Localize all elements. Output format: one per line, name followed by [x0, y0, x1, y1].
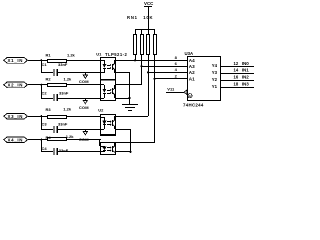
- wire U2 ch2 emitter: [116, 151, 131, 152]
- wire C2 to optocoupler cathode: [58, 98, 101, 99]
- svg-text:A1: A1: [189, 77, 195, 82]
- svg-text:R2: R2: [46, 76, 52, 81]
- optocoupler U2 channel 2 box: [100, 142, 116, 155]
- svg-text:Y1: Y1: [212, 84, 218, 89]
- svg-text:IN3: IN3: [242, 81, 250, 86]
- port X2_IN: [4, 82, 28, 88]
- wire C3 to optocoupler cathode: [58, 129, 101, 130]
- pin 6 label A3: [175, 61, 196, 69]
- svg-text:1.2k: 1.2k: [66, 134, 75, 139]
- power symbol VCC: [144, 1, 154, 29]
- svg-text:Y4: Y4: [212, 63, 218, 68]
- svg-text:16: 16: [234, 75, 239, 80]
- optocoupler U1 label TLP521-2: [96, 52, 127, 57]
- wire X4_IN to R4: [28, 139, 47, 140]
- enable net V11 to pin 1/19 (G): [166, 86, 192, 98]
- wire U1 ch2 collector to RN1-2: [116, 84, 142, 85]
- resistor R1 1.2k: [46, 53, 76, 63]
- port X3_IN: [4, 113, 28, 119]
- resistor RN1 element 3: [146, 29, 150, 116]
- svg-text:IN1: IN1: [242, 68, 250, 73]
- optocoupler U1 channel 1 (LED + phototransistor): [101, 60, 116, 73]
- svg-text:18: 18: [234, 81, 239, 86]
- ground GND symbol: [122, 104, 138, 111]
- svg-text:1.2k: 1.2k: [63, 107, 72, 112]
- svg-text:RN1: RN1: [127, 15, 138, 20]
- svg-text:33nF: 33nF: [58, 62, 68, 67]
- resistor R3 1.2k: [46, 107, 72, 120]
- power symbol COM (row2): [79, 98, 89, 110]
- svg-text:U1: U1: [96, 52, 102, 57]
- wire RN1-2 to IC pin 6 (node row2): [140, 65, 187, 67]
- wire VCC bus: [135, 29, 155, 30]
- wire C1 to optocoupler cathode: [58, 72, 101, 73]
- optocoupler U2 channel 1 box: [100, 114, 116, 136]
- svg-text:C4: C4: [42, 146, 48, 151]
- wire R4 to optocoupler: [67, 139, 101, 140]
- resistor R4 1.2k: [46, 134, 75, 141]
- svg-text:C1: C1: [42, 62, 48, 67]
- svg-text:X1_IN: X1_IN: [7, 58, 23, 63]
- capacitor C4 33nF: [41, 146, 69, 155]
- wire U2 ch1 emitter down: [116, 129, 132, 153]
- pin 2 label A1: [175, 73, 196, 81]
- svg-text:2: 2: [175, 73, 178, 78]
- svg-text:C2: C2: [42, 90, 48, 95]
- svg-text:A4: A4: [189, 58, 195, 63]
- svg-text:IN2: IN2: [242, 75, 250, 80]
- optocoupler U2 label: [98, 108, 104, 113]
- optocoupler U1 outer box: [100, 57, 116, 101]
- svg-text:X3_IN: X3_IN: [7, 114, 23, 119]
- wire R1 to optocoupler: [67, 60, 101, 61]
- svg-text:33nF: 33nF: [58, 122, 68, 127]
- svg-text:Y3: Y3: [212, 70, 218, 75]
- svg-text:COM: COM: [79, 79, 89, 84]
- wire X1_IN to R1: [28, 60, 47, 61]
- optocoupler U2 channel 2 (LED + phototransistor): [101, 142, 116, 153]
- wire junction branch to C3: [40, 115, 42, 129]
- pin 16 label Y2 wire to net IN2: [212, 75, 254, 82]
- wire junction branch to C4: [40, 139, 42, 152]
- buffer IC U3A 74HC244 box: [183, 51, 221, 108]
- wire X2_IN to R2: [28, 84, 47, 85]
- optocoupler U1 channel 2 (LED + phototransistor): [101, 84, 116, 99]
- svg-text:V11: V11: [167, 86, 175, 91]
- svg-text:U2: U2: [98, 108, 104, 113]
- capacitor C2 33nF: [41, 90, 69, 101]
- svg-text:X4_IN: X4_IN: [7, 137, 23, 142]
- port X4_IN: [4, 137, 28, 143]
- svg-text:74HC244: 74HC244: [183, 103, 204, 108]
- wire junction branch to C1: [40, 59, 42, 73]
- resistor RN1 element 2: [140, 29, 144, 85]
- wire U2 ch1 collector to RN1-3: [116, 116, 148, 117]
- svg-text:U3A: U3A: [185, 51, 194, 56]
- svg-text:Y2: Y2: [212, 77, 218, 82]
- svg-text:IN0: IN0: [242, 61, 250, 66]
- svg-text:4: 4: [175, 67, 178, 72]
- pin 4 label A2: [175, 67, 196, 75]
- svg-text:R4: R4: [46, 135, 52, 140]
- wire RN1-4 to IC pin 2 (node row4): [153, 78, 187, 80]
- svg-text:14: 14: [234, 68, 239, 73]
- svg-text:12: 12: [234, 61, 239, 66]
- resistor R2 1.2k: [46, 76, 73, 87]
- svg-text:1.2k: 1.2k: [67, 53, 76, 58]
- svg-text:VCC: VCC: [144, 1, 154, 6]
- svg-text:33nF: 33nF: [59, 148, 69, 153]
- svg-text:8: 8: [175, 55, 178, 60]
- wire RN1-3 to IC pin 4 (node row3): [147, 71, 187, 73]
- svg-text:COM: COM: [79, 137, 89, 142]
- capacitor C1 33nF: [41, 62, 68, 76]
- pin 18 label Y1 wire to net IN3: [212, 81, 254, 88]
- svg-text:X2_IN: X2_IN: [7, 82, 23, 87]
- capacitor C3 33nF: [41, 122, 68, 133]
- svg-text:33nF: 33nF: [59, 90, 69, 95]
- wire X3_IN to R3: [28, 116, 47, 117]
- power symbol COM (row1): [79, 73, 89, 84]
- optocoupler U2 channel 1 (LED + phototransistor): [101, 116, 116, 130]
- svg-text:A2: A2: [189, 70, 195, 75]
- resistor RN1 element 4: [153, 29, 157, 142]
- svg-text:TLP521-2: TLP521-2: [105, 52, 127, 57]
- wire U1 ch1 emitter down: [116, 72, 131, 99]
- port X1_IN: [4, 57, 28, 63]
- wire R3 to optocoupler: [67, 116, 101, 117]
- wire R2 to optocoupler: [67, 84, 101, 85]
- power symbol COM (row3): [79, 129, 89, 142]
- wire junction branch to C2: [40, 84, 42, 98]
- svg-text:C3: C3: [42, 122, 48, 127]
- svg-text:R3: R3: [46, 107, 52, 112]
- wire jog X4 row into U2 ch2 anode: [99, 140, 102, 147]
- wire U2 ch2 collector to RN1-4: [116, 142, 155, 143]
- wire U1 ch2 emitter to GND: [116, 98, 130, 105]
- optocoupler U1 channel divider: [100, 79, 116, 81]
- svg-text:6: 6: [175, 61, 178, 66]
- pin 12 label Y4 wire to net IN0: [212, 61, 254, 68]
- pin 14 label Y3 wire to net IN1: [212, 68, 254, 75]
- svg-text:10K: 10K: [143, 15, 153, 20]
- wire U1 ch1 collector to IC pin 8 (node row1): [116, 59, 187, 61]
- svg-text:COM: COM: [79, 105, 89, 110]
- svg-text:R1: R1: [46, 53, 52, 58]
- resistor RN1 element 1: [133, 29, 137, 60]
- wire C4 to optocoupler cathode: [58, 151, 101, 152]
- resistor network RN1 label 10K: [127, 15, 153, 20]
- svg-text:1.2k: 1.2k: [64, 76, 73, 81]
- pin 8 label A4: [175, 55, 196, 63]
- svg-text:A3: A3: [189, 64, 195, 69]
